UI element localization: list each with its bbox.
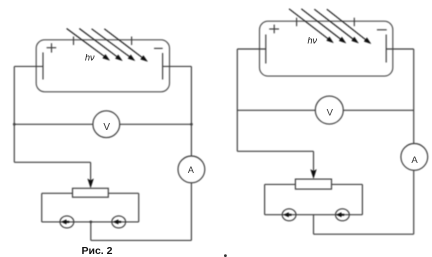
svg-text:V: V [327, 107, 334, 118]
svg-text:Рис. 2: Рис. 2 [82, 245, 113, 257]
svg-text:A: A [188, 165, 194, 175]
svg-text:hν: hν [85, 53, 95, 63]
svg-text:V: V [103, 122, 110, 133]
svg-text:A: A [411, 155, 418, 166]
svg-text:hν: hν [308, 36, 318, 46]
